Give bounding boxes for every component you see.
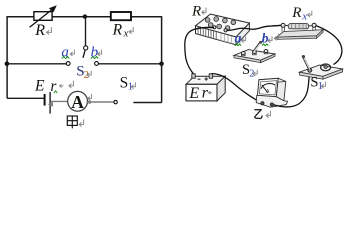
tab arrow after r (battery) [208,91,212,94]
terminal b circle [95,62,99,66]
label Rx (pictorial) [291,5,307,22]
paragraph mark after Rx (pictorial) [308,11,312,17]
meter body right side face [276,78,286,101]
tab arrow after r [60,84,64,87]
rheostat box front face with winding hatch [196,26,237,45]
label b (pictorial) [262,30,269,45]
meter dial arc and needle [261,83,275,92]
switch S2 posts [241,50,267,56]
switch S2 blade (open, raised) [254,41,263,52]
node: top junction dot [83,14,87,18]
svg-text:x: x [123,29,129,40]
wire: Rx right post down to switch S1 [316,26,342,65]
wire: right vertical side down to S1 corner [133,16,161,103]
label b [91,44,99,60]
battery E short plate [44,94,46,106]
battery E long plate [49,92,51,114]
battery negative terminal [192,74,195,78]
paragraph mark after S1 [131,82,135,88]
terminal a circle [66,62,70,66]
label S1 [120,74,133,92]
resistor Rx body [111,12,131,20]
svg-text:R: R [34,22,45,39]
gray wire ammeter to switch S1 [89,101,114,103]
label r [50,78,57,95]
rheostat plug holes top row [205,17,235,25]
battery box top face [186,76,225,84]
label R (rheostat, pictorial) [191,4,201,20]
paragraph mark after R [47,27,52,34]
ammeter letter A [71,92,84,112]
label a (pictorial) [235,31,242,46]
spellcheck zigzag under a (pictorial) [235,44,241,46]
rheostat plug holes front row [208,23,230,31]
svg-text:R: R [291,5,301,21]
svg-text:R: R [112,22,123,39]
wire: meter right terminal up to switch S1 [274,72,310,107]
meter base plinth [256,95,287,107]
svg-text:a: a [235,31,242,46]
battery minus sign [198,78,201,80]
svg-text:A: A [266,89,270,95]
meter terminals [261,102,274,106]
paragraph mark on battery line [69,81,74,88]
svg-text:x: x [301,11,307,22]
battery box right side face [217,76,225,101]
wire: along rheostat front edge to left [194,27,214,29]
node: middle-left junction dot [5,62,10,67]
svg-text:r: r [202,85,209,102]
resistor Rx base plate [277,30,324,40]
svg-text:b: b [262,30,269,45]
wire: bottom-left horizontal to battery [7,97,44,99]
paragraph mark after a [70,50,74,56]
paragraph mark after a (pictorial) [241,36,245,42]
paragraph mark after S2 [87,71,91,77]
battery positive terminal [209,74,212,78]
switch S2 base slab [234,50,275,63]
label S1 (pictorial) [310,75,322,92]
switch S2 pivot circle [84,46,88,50]
gray wire battery to ammeter [51,100,68,102]
wire: top-left horizontal from corner to rheostat R [7,16,34,18]
switch S1 left post [308,68,312,72]
rheostat R body [34,12,52,21]
battery box front face [186,84,217,101]
meter dial inner frame [259,81,276,95]
meter letter A [266,89,270,95]
paragraph mark after S2 (pictorial) [253,70,257,76]
svg-text:E: E [188,85,199,102]
switch S2 blade [83,50,85,58]
wire: rheostat down to battery negative terminal [185,29,194,73]
paragraph mark after R (pictorial) [202,8,206,15]
wire: battery positive to meter left terminal [212,74,263,104]
label a [61,44,69,60]
meter front face [258,78,279,97]
label Rx [112,22,129,40]
spellcheck zigzag under b [91,57,99,59]
label E r on battery [188,85,208,102]
svg-text:E: E [34,77,45,94]
resistor Rx left binding post [281,23,285,31]
rheostat box top face [196,14,250,37]
switch S1 base slab [299,65,342,79]
label 甲 (CJK glyph drawn) [67,116,77,128]
wire: rheostat to Rx (wavy) [227,25,282,30]
label S2 [76,63,89,80]
gray connector arrowhead at ammeter [86,100,91,105]
switch S1 blade (open, raised) [302,55,310,70]
wire: top middle between R and junction [52,16,111,18]
wire: middle horizontal to terminal a [7,63,66,65]
battery plus sign [204,77,208,81]
label E [34,77,45,94]
wire: Rx leads to posts [285,25,312,27]
rheostat binding posts on front edge [213,26,228,32]
label S2 (pictorial) [242,62,254,79]
node: middle-right junction dot [159,62,164,67]
svg-text:A: A [71,92,84,112]
paragraph mark after S1 (pictorial) [321,82,325,88]
wire: left vertical side [6,16,8,98]
rheostat box right end face [236,23,249,45]
gray connector arrowhead at battery [48,102,53,107]
spellcheck zigzag under b (pictorial) [262,44,268,46]
resistor Rx right binding post [312,23,316,31]
switch S2 stem wire [85,17,87,46]
paragraph mark after b [97,50,101,56]
resistor Rx cylinder body [288,24,309,29]
paragraph mark after 乙 [266,111,270,118]
label 乙 (CJK glyph drawn) [254,110,262,119]
label R (rheostat) [34,22,45,39]
wire: into Rx from left [273,24,282,27]
paragraph mark after b (pictorial) [268,36,272,42]
spellcheck caret under r [54,91,57,93]
switch S1 right post with wire ring [321,64,331,71]
meter top sliver face [259,78,286,83]
spellcheck zigzag under a [62,57,70,59]
ammeter A circle [68,91,88,111]
paragraph mark after Rx [129,27,133,34]
paragraph mark at ammeter right [88,94,92,100]
paragraph mark after 甲 [79,119,83,126]
wire: middle horizontal from b to right side [98,63,161,65]
switch S1 terminal circle [114,100,117,103]
stray paragraph mark left of Rx plate [274,34,278,41]
rheostat R arrow [30,5,57,27]
wire: top-right from Rx to corner [131,16,161,18]
svg-text:R: R [191,4,201,20]
